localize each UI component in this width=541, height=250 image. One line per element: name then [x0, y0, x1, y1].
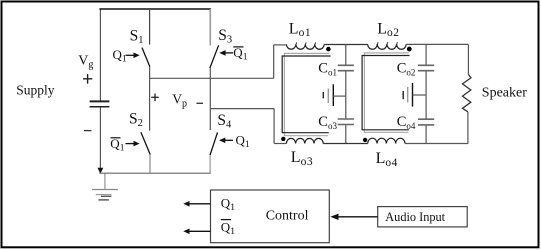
svg-text:Q1: Q1	[110, 136, 124, 154]
svg-text:Lo3: Lo3	[291, 149, 313, 168]
svg-text:S1: S1	[130, 27, 144, 46]
svg-text:Co4: Co4	[397, 114, 416, 131]
svg-text:Lo2: Lo2	[377, 20, 399, 39]
svg-text:Lo1: Lo1	[289, 20, 311, 39]
svg-text:Co3: Co3	[318, 114, 337, 131]
svg-text:Vg: Vg	[78, 54, 93, 71]
svg-text:Q1: Q1	[221, 220, 235, 238]
svg-text:Co1: Co1	[318, 61, 337, 78]
svg-text:Audio Input: Audio Input	[385, 210, 445, 224]
svg-text:Supply: Supply	[16, 82, 55, 97]
svg-text:Lo4: Lo4	[376, 150, 398, 169]
svg-text:Q1: Q1	[113, 47, 127, 65]
svg-text:Speaker: Speaker	[482, 86, 527, 101]
svg-text:S2: S2	[129, 110, 143, 129]
svg-text:Q1: Q1	[233, 45, 247, 63]
svg-text:Q1: Q1	[221, 196, 235, 214]
svg-text:Control: Control	[266, 208, 309, 223]
svg-text:Vp: Vp	[172, 92, 187, 110]
svg-text:S3: S3	[218, 27, 232, 46]
svg-text:S4: S4	[217, 112, 232, 131]
svg-text:Co2: Co2	[397, 61, 416, 78]
svg-text:Q1: Q1	[236, 133, 250, 151]
